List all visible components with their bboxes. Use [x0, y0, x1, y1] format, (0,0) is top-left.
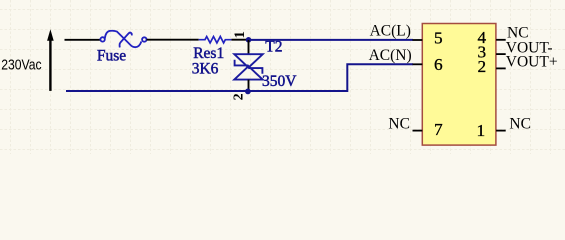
node B junction dot: [245, 89, 251, 95]
resistor Res1: [199, 37, 232, 43]
pin 4 stub: [496, 39, 506, 41]
svg-text:VOUT+: VOUT+: [506, 54, 558, 71]
wire AC(L) node to pin 5 (navy): [251, 39, 413, 41]
svg-text:5: 5: [434, 29, 443, 48]
svg-text:NC: NC: [509, 115, 531, 132]
node A junction dot: [246, 37, 252, 43]
pin 5 stub: [413, 39, 423, 41]
TVS T2 bottom lead (black): [248, 80, 250, 91]
svg-text:AC(L): AC(L): [370, 23, 411, 40]
svg-text:350V: 350V: [262, 73, 297, 90]
svg-text:6: 6: [434, 55, 443, 74]
pin 7 stub: [413, 130, 423, 132]
TVS T2 top lead (black): [248, 40, 250, 54]
arrow (AC source): [47, 29, 54, 91]
svg-text:T2: T2: [265, 39, 282, 56]
wire resistor to node (black): [231, 39, 247, 41]
IC component body (yellow box): [422, 24, 496, 146]
svg-text:3K6: 3K6: [192, 61, 219, 78]
fuse Fuse symbol: [100, 31, 146, 48]
svg-text:1: 1: [232, 31, 248, 38]
svg-text:230Vac: 230Vac: [1, 58, 41, 74]
svg-text:2: 2: [231, 93, 246, 100]
pin 6 stub: [413, 63, 423, 65]
svg-text:Fuse: Fuse: [97, 48, 126, 65]
pin 1 stub: [496, 130, 506, 132]
pin 2 stub: [496, 67, 506, 69]
svg-text:7: 7: [434, 120, 443, 139]
svg-text:Res1: Res1: [193, 45, 224, 62]
wire AC(N) bottom (navy): [66, 64, 413, 91]
svg-text:2: 2: [478, 57, 487, 76]
wire top-left (black): [65, 39, 101, 41]
TVS T2 body: [234, 54, 262, 79]
wire fuse to resistor (black): [147, 39, 199, 41]
svg-text:1: 1: [477, 121, 486, 140]
pin 3 stub: [496, 53, 506, 55]
svg-text:NC: NC: [388, 115, 410, 132]
svg-text:AC(N): AC(N): [369, 47, 412, 64]
